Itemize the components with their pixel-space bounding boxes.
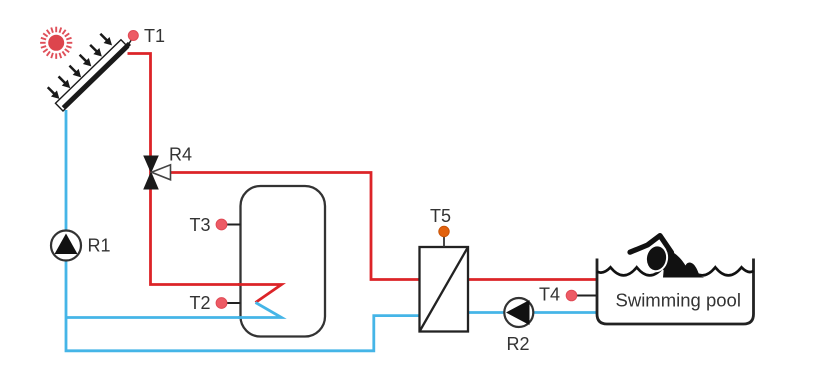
- svg-text:R4: R4: [169, 145, 192, 165]
- svg-text:T3: T3: [190, 215, 211, 235]
- svg-text:R2: R2: [507, 334, 530, 354]
- svg-text:T5: T5: [430, 206, 451, 226]
- svg-text:Swimming pool: Swimming pool: [616, 290, 741, 311]
- svg-text:T1: T1: [144, 26, 165, 46]
- svg-text:T2: T2: [190, 293, 211, 313]
- svg-text:R1: R1: [88, 236, 111, 256]
- svg-text:T4: T4: [539, 285, 560, 305]
